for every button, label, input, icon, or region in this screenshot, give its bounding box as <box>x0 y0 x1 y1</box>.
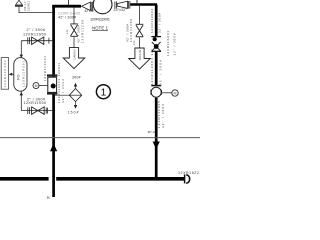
DRAIN hollow arrow left <box>63 48 85 69</box>
svg-text:42"x32": 42"x32" <box>85 9 96 13</box>
lower left valve branch line <box>21 110 52 112</box>
DRAIN hollow arrow right <box>129 48 151 69</box>
filter bottom line down <box>20 91 22 110</box>
motor actuator M left <box>33 83 39 89</box>
wire MOV to motor <box>39 85 48 87</box>
svg-text:12XR11P302: 12XR11P302 <box>3 60 7 88</box>
svg-text:12XR11Z50: 12XR11Z50 <box>129 19 133 42</box>
svg-text:12XR11: 12XR11 <box>57 63 61 76</box>
svg-text:M: M <box>174 91 177 95</box>
svg-text:12XR11D001: 12XR11D001 <box>90 16 111 21</box>
wire valve to drain arrow right <box>139 37 141 48</box>
svg-text:12XR11Z50: 12XR11Z50 <box>80 20 84 43</box>
svg-text:42" / 300#: 42" / 300# <box>61 79 65 103</box>
elbow down to filter <box>20 41 22 56</box>
reducer right 24"x32" <box>115 1 130 9</box>
svg-text:NOTE 1: NOTE 1 <box>92 25 109 30</box>
stub up from header <box>68 0 70 6</box>
arrow into filter top <box>20 55 23 58</box>
svg-text:24"x32": 24"x32" <box>114 8 128 12</box>
vent-to-atmosphere PSV symbol <box>15 0 23 7</box>
main vertical pipe right <box>155 5 158 179</box>
spec break diamond with internal line <box>69 89 81 102</box>
flow arrow down on right pipe <box>153 142 160 150</box>
svg-text:150#: 150# <box>68 110 79 114</box>
bottom thick header <box>0 177 184 181</box>
svg-text:12XR11: 12XR11 <box>26 0 30 11</box>
svg-text:12XR11S001: 12XR11S001 <box>166 31 170 56</box>
thick top header <box>52 5 81 8</box>
filter capsule FG 12XR11P501 <box>14 58 27 92</box>
flow arrow up on left pipe <box>50 144 57 152</box>
right drain branch drop line <box>139 6 141 24</box>
header end cap <box>185 174 190 183</box>
svg-text:12XR11S50: 12XR11S50 <box>23 33 46 37</box>
svg-text:M: M <box>35 84 38 88</box>
svg-text:DRAIN: DRAIN <box>138 50 142 60</box>
flange ticks lower valve <box>28 107 48 114</box>
svg-text:32" / 300#: 32" / 300# <box>157 13 161 33</box>
right pipe valve 1: flange and gate with ball <box>151 37 161 52</box>
svg-text:12XR11Z001: 12XR11Z001 <box>43 56 47 81</box>
svg-text:DRAIN: DRAIN <box>72 50 76 60</box>
wire valve to motor <box>162 92 172 94</box>
reducer left 42"x32" <box>82 2 93 11</box>
svg-text:12XR11Z004: 12XR11Z004 <box>150 9 154 33</box>
left pipe MOV: flanges, body, ball <box>47 74 57 94</box>
up arrow 300# <box>75 86 77 88</box>
wire PSV stem and branch to main pipe <box>19 7 52 13</box>
stub up right header <box>136 0 138 4</box>
gate valve 12XR11S50 bowtie <box>32 37 44 44</box>
motor actuator M right <box>172 90 178 96</box>
down arrow 150# <box>75 102 77 106</box>
svg-text:1: 1 <box>100 87 106 99</box>
svg-text:32" / 300#: 32" / 300# <box>161 104 165 128</box>
left drain gate valve L.C. <box>70 24 77 36</box>
vessel circle 12XR11D001 <box>93 0 112 14</box>
right pipe MOV: flange, ball valve circle <box>151 86 162 98</box>
wire valve to drain arrow <box>73 37 75 48</box>
svg-text:2" / 300#: 2" / 300# <box>27 28 46 32</box>
gate valve 12XR11S51 bowtie <box>32 107 45 114</box>
svg-text:300#: 300# <box>72 75 81 79</box>
arrow filter to instrument <box>10 73 14 75</box>
svg-text:32" / 300#: 32" / 300# <box>173 33 177 55</box>
svg-text:12XR11S50: 12XR11S50 <box>24 101 47 105</box>
upper left valve branch line <box>21 40 52 42</box>
svg-text:42" / 300#: 42" / 300# <box>58 15 76 19</box>
svg-text:L.C.: L.C. <box>65 29 69 34</box>
top right header run <box>130 3 157 5</box>
PSV size label (rotated) <box>23 0 30 11</box>
note balloon circled 1 <box>96 85 110 99</box>
svg-text:BL: BL <box>47 195 51 199</box>
svg-text:12XR16Z2: 12XR16Z2 <box>178 171 199 175</box>
left drain branch drop line <box>73 8 75 24</box>
stub to spec break diamond <box>55 94 69 96</box>
svg-text:12XR11Z004 32": 12XR11Z004 32" <box>150 49 154 85</box>
main vertical pipe left (12XR11 header riser) <box>52 5 55 197</box>
svg-text:FG: FG <box>16 74 21 80</box>
svg-text:32" / 300#: 32" / 300# <box>159 60 163 85</box>
arrow up into filter bottom <box>20 92 23 96</box>
svg-text:12XR11P501: 12XR11P501 <box>22 61 26 88</box>
thin 150# header line <box>0 137 200 139</box>
flange ticks <box>28 37 49 44</box>
right drain gate valve L.C. <box>136 24 144 37</box>
svg-text:3/4"x1": 3/4"x1" <box>23 1 27 11</box>
NOTE 1 callout <box>92 25 109 30</box>
instrument rectangle 12XR11P302 <box>1 58 8 90</box>
svg-text:36"-A: 36"-A <box>148 130 155 134</box>
